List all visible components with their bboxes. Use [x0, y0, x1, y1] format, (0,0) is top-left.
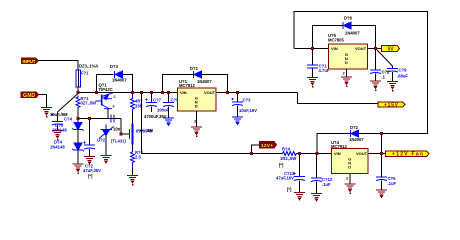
- junction link on zener chain: [77, 117, 80, 120]
- junction C7 on rail: [150, 91, 153, 94]
- junction loop3 left on input: [311, 47, 314, 50]
- ground C8: [84, 157, 95, 164]
- ground C2: [370, 81, 381, 91]
- wire U1 gnd pin: [196, 111, 198, 127]
- ground U5: [341, 77, 352, 87]
- diode D?1: [194, 71, 202, 78]
- wire C8 lead: [89, 119, 91, 145]
- junction loop1 left on rail: [95, 91, 98, 94]
- wire loop4 to output: [381, 134, 383, 154]
- junction port 12V on rail: [250, 152, 253, 155]
- svg-text:1N4007: 1N4007: [112, 78, 127, 83]
- wire FET to R2: [132, 145, 134, 151]
- wire C8 to ground: [89, 149, 91, 156]
- svg-text:10uF,16V: 10uF,16V: [239, 108, 257, 113]
- wire R1 to D5: [77, 109, 79, 123]
- svg-text:VIN: VIN: [331, 46, 338, 51]
- port +12VFan: [386, 151, 430, 158]
- resistor R?2: [131, 151, 135, 169]
- svg-text:MC7805: MC7805: [328, 38, 344, 43]
- bypass loop 4 left: [317, 134, 350, 154]
- wire R2 to ground: [132, 168, 134, 175]
- wire C9 bottom: [392, 72, 394, 81]
- bypass loop 3 left: [313, 26, 344, 49]
- transistor Q?2 FET: [130, 124, 134, 145]
- capacitor C?2: [370, 70, 381, 74]
- junction loop4 left on rail: [316, 152, 319, 155]
- junction fuse-rail: [77, 91, 80, 94]
- wire output jog to port: [298, 93, 379, 104]
- junction C8 on link: [88, 117, 91, 120]
- capacitor C?3: [237, 93, 239, 102]
- junction center drop on rail: [140, 91, 143, 94]
- bypass loop 2 right: [202, 75, 228, 93]
- fuse F?1: [76, 70, 81, 87]
- ground TL431: [101, 156, 112, 163]
- zener D?5: [72, 123, 83, 131]
- wire port 12V: [252, 145, 260, 154]
- junction gate node: [120, 133, 123, 136]
- svg-text:R?4: R?4: [282, 147, 291, 152]
- svg-text:1N4148: 1N4148: [52, 128, 67, 133]
- wire center drop: [141, 93, 143, 154]
- capacitor C?4: [52, 114, 64, 126]
- svg-text:+12V Fan: +12V Fan: [392, 152, 423, 158]
- svg-text:C?3: C?3: [243, 98, 252, 103]
- svg-text:DZ3,.1%A: DZ3,.1%A: [79, 64, 98, 69]
- capacitor C?9: [387, 69, 398, 73]
- svg-text:10n: 10n: [113, 127, 121, 132]
- svg-text:VOUT: VOUT: [356, 151, 368, 156]
- svg-text:327,.5W: 327,.5W: [81, 101, 97, 106]
- wire bottom rail left: [142, 153, 282, 155]
- svg-text:D?1: D?1: [190, 66, 199, 71]
- bypass loop 2 left: [163, 75, 194, 93]
- svg-text:VIN: VIN: [180, 90, 187, 95]
- junction U4 output node: [380, 152, 383, 155]
- svg-text:1N4007: 1N4007: [349, 137, 364, 142]
- junction loop3 right on output: [374, 47, 377, 50]
- svg-text:47uF,35V: 47uF,35V: [83, 168, 101, 173]
- wire C3 bottom: [237, 106, 239, 117]
- wire main rail: [78, 92, 178, 94]
- bypass loop 4 right wire: [359, 133, 382, 135]
- regulator U?4: [332, 149, 369, 174]
- wire U4 output: [368, 153, 386, 155]
- wire U5 gnd pin: [346, 69, 348, 77]
- svg-text:+15V: +15V: [384, 102, 399, 108]
- wire C1 bottom: [312, 69, 314, 78]
- capacitor C?12: [311, 178, 322, 182]
- wire C13 lead: [299, 154, 301, 177]
- wire C2 bottom: [375, 74, 377, 81]
- ground C12: [311, 194, 322, 201]
- junction loop2 right on output: [226, 91, 229, 94]
- svg-text:D: D: [348, 165, 351, 170]
- svg-text:D?2: D?2: [350, 125, 359, 130]
- svg-text:GND: GND: [23, 93, 35, 99]
- capacitor C?7: [151, 93, 153, 103]
- bypass loop 3 right: [351, 26, 376, 49]
- resistor R?1: [76, 96, 80, 109]
- wire C12 bottom: [316, 182, 318, 194]
- wire input port to fuse: [39, 61, 79, 71]
- wire TL431 anode: [105, 136, 107, 156]
- diode D?3: [115, 71, 123, 78]
- resistor R?4: [281, 152, 299, 156]
- resistor R?3: [131, 93, 135, 112]
- svg-text:VIN: VIN: [334, 151, 341, 156]
- port GND: [21, 92, 39, 99]
- svg-text:2.5: 2.5: [135, 155, 141, 160]
- svg-text:TIP42C: TIP42C: [99, 87, 113, 92]
- wire diagonal to C4: [58, 94, 79, 113]
- wire D5 to D4: [77, 130, 79, 144]
- port +5V: [382, 46, 400, 53]
- svg-text:D?3: D?3: [110, 64, 119, 69]
- port INPUT: [22, 58, 39, 64]
- svg-text:2: 2: [114, 95, 116, 99]
- ground R2: [127, 176, 138, 186]
- svg-text:.1uF: .1uF: [322, 182, 331, 187]
- wire bottom rail right: [299, 153, 332, 155]
- svg-text:.68uF: .68uF: [397, 74, 408, 79]
- ground C6: [376, 190, 387, 197]
- wire U1 output: [216, 92, 298, 94]
- svg-text:[*]: [*]: [279, 163, 284, 168]
- wire fuse to rail: [77, 87, 79, 93]
- ground C4: [52, 131, 63, 141]
- diode D?2: [351, 130, 359, 137]
- wire gnd port: [39, 95, 47, 108]
- svg-text:C?7: C?7: [153, 98, 162, 103]
- svg-text:D?6: D?6: [344, 16, 353, 21]
- ground U4: [345, 184, 356, 194]
- wire collector down: [107, 108, 109, 119]
- svg-text:(TL431): (TL431): [111, 139, 126, 144]
- capacitor C?4b: [111, 115, 114, 123]
- ground C3 blue: [232, 117, 243, 124]
- junction C13 on rail: [298, 152, 301, 155]
- junction loop4 right: [380, 132, 383, 135]
- junction C3 on output: [236, 91, 239, 94]
- svg-text:1N4007: 1N4007: [197, 79, 212, 84]
- wire U4 gnd pin: [349, 174, 351, 184]
- wire C5 bottom: [168, 107, 170, 118]
- capacitor C?5: [168, 93, 170, 103]
- ground C13: [294, 193, 305, 200]
- svg-text:.8M: .8M: [146, 128, 153, 133]
- wire gate link: [121, 119, 130, 135]
- svg-text:3: 3: [113, 105, 115, 109]
- svg-text:D: D: [345, 60, 348, 65]
- regulator U?1: [178, 88, 217, 111]
- svg-text:47uF,16V: 47uF,16V: [276, 176, 294, 181]
- wire C4 bottom: [57, 125, 59, 130]
- svg-text:INPUT: INPUT: [23, 59, 36, 64]
- ground zener chain: [73, 164, 84, 174]
- svg-text:12V+: 12V+: [261, 143, 273, 148]
- junction loop1 right on rail: [131, 91, 134, 94]
- svg-text:VOUT: VOUT: [355, 46, 367, 51]
- TL431 U?2: [99, 125, 114, 139]
- svg-text:1N4148: 1N4148: [50, 145, 65, 150]
- wire C4 top lead: [57, 112, 59, 121]
- svg-text:5V: 5V: [388, 47, 395, 53]
- wire diagonal to C9: [377, 50, 393, 68]
- svg-text:MC7912: MC7912: [331, 144, 347, 149]
- wire C2 lead: [375, 49, 377, 70]
- svg-text:C?4: C?4: [64, 117, 73, 122]
- wire D4 to ground: [77, 150, 79, 164]
- svg-text:.1uF: .1uF: [388, 181, 397, 186]
- capacitor C?8: [84, 142, 96, 150]
- wire top input: [294, 48, 329, 50]
- svg-text:1R2,.5W: 1R2,.5W: [280, 156, 296, 161]
- junction loop2 left on rail: [161, 91, 164, 94]
- svg-text:[*]: [*]: [88, 174, 93, 179]
- bypass loop 1 right: [123, 75, 133, 93]
- diode D?6: [343, 22, 351, 29]
- zener D?4: [72, 143, 83, 151]
- svg-text:C?9: C?9: [399, 68, 408, 73]
- ground C9: [387, 82, 398, 92]
- svg-text:100uF: 100uF: [157, 108, 170, 113]
- svg-text:[*]: [*]: [287, 187, 292, 192]
- svg-text:MC7812: MC7812: [179, 83, 195, 88]
- port +12V stub: [260, 142, 277, 149]
- wire C13 bottom: [299, 181, 301, 193]
- ground C1: [307, 78, 318, 88]
- svg-text:VOUT: VOUT: [204, 90, 216, 95]
- junction C5 on rail: [167, 91, 170, 94]
- wire R3 to FET: [132, 112, 134, 124]
- wire cross link: [78, 118, 121, 120]
- svg-text:1N4007: 1N4007: [345, 31, 360, 36]
- capacitor C?13: [294, 173, 306, 181]
- ground U1: [191, 127, 202, 137]
- regulator U?5: [329, 44, 368, 69]
- bypass loop 1 left: [97, 75, 114, 93]
- transistor Q?1: [96, 93, 114, 109]
- capacitor C?6: [376, 177, 387, 181]
- ground C5 blue: [163, 118, 174, 125]
- svg-text:U?2: U?2: [97, 138, 106, 143]
- outer loop wire: [294, 12, 428, 134]
- wire C6 lead: [381, 154, 383, 177]
- wire U5 output: [368, 48, 382, 50]
- port +15V: [378, 102, 405, 108]
- svg-text:F?1: F?1: [81, 71, 89, 76]
- wire C7 bottom: [151, 107, 153, 113]
- wire C6 bottom: [381, 181, 383, 190]
- capacitor C?1: [312, 49, 314, 65]
- ground (port): [41, 108, 52, 118]
- wire C12 lead: [316, 154, 318, 178]
- svg-text:D: D: [195, 104, 198, 109]
